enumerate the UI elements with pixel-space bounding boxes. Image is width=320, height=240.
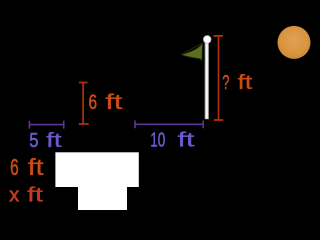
sun [278,26,311,59]
flag top crease line [182,43,203,54]
flagpole ball [203,36,211,44]
svg-text:5: 5 [29,130,38,152]
white mask block lower [78,187,127,210]
svg-text:x: x [9,184,20,207]
bracket 10 ft (purple horizontal) [135,121,203,129]
svg-text:ft: ft [238,72,253,94]
svg-text:ft: ft [27,184,43,207]
svg-text:ft: ft [28,154,44,180]
svg-text:ft: ft [46,130,62,152]
svg-text:6: 6 [10,154,19,180]
bracket ? ft (red vertical) [214,36,224,120]
svg-text:ft: ft [105,91,122,114]
white mask block upper [55,152,138,187]
svg-text:6: 6 [89,91,98,114]
flag [181,43,202,61]
svg-text:?: ? [222,72,229,94]
svg-text:10: 10 [150,130,165,152]
bracket 6 ft (red vertical) [79,83,89,125]
bracket 5 ft (purple horizontal) [29,121,63,129]
svg-text:ft: ft [178,130,196,152]
flagpole [205,42,209,119]
